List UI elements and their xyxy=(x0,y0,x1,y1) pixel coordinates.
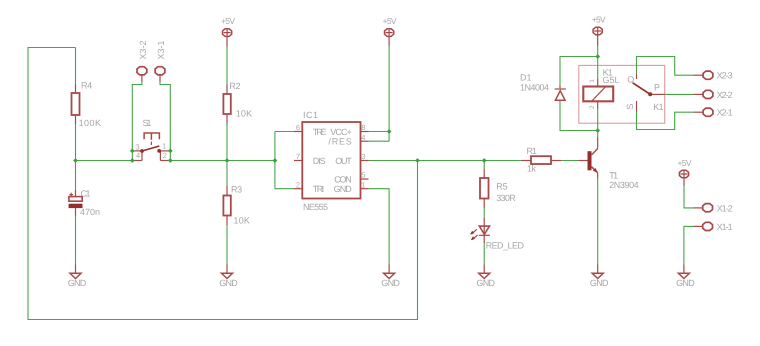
svg-text:NE555: NE555 xyxy=(303,202,328,212)
svg-text:GND: GND xyxy=(676,278,695,288)
svg-text:R3: R3 xyxy=(231,185,242,195)
svg-text:+5V: +5V xyxy=(383,16,397,26)
svg-text:2: 2 xyxy=(589,105,596,109)
svg-text:GND: GND xyxy=(476,278,495,288)
svg-text:6: 6 xyxy=(296,123,300,132)
svg-text:OUT: OUT xyxy=(335,156,352,166)
svg-text:GND: GND xyxy=(381,278,400,288)
svg-text:4: 4 xyxy=(136,151,140,160)
svg-text:X1-2: X1-2 xyxy=(717,203,733,213)
svg-text:O: O xyxy=(627,75,634,85)
svg-text:X2-2: X2-2 xyxy=(717,90,733,100)
svg-text:R5: R5 xyxy=(496,181,508,191)
svg-text:5: 5 xyxy=(361,171,365,180)
svg-text:470n: 470n xyxy=(80,207,100,217)
svg-text:GND: GND xyxy=(219,278,238,288)
svg-text:X3-2: X3-2 xyxy=(138,41,148,60)
svg-text:K1: K1 xyxy=(653,102,664,112)
svg-text:R1: R1 xyxy=(527,146,538,156)
svg-text:1: 1 xyxy=(361,180,365,189)
svg-text:4: 4 xyxy=(361,133,365,142)
svg-text:T1: T1 xyxy=(609,170,618,180)
svg-text:330R: 330R xyxy=(496,193,516,203)
svg-text:1k: 1k xyxy=(527,164,537,174)
svg-text:/RES: /RES xyxy=(328,137,351,147)
svg-text:IC1: IC1 xyxy=(303,110,318,120)
svg-text:GND: GND xyxy=(590,278,609,288)
svg-text:3: 3 xyxy=(361,152,365,161)
svg-text:100K: 100K xyxy=(79,118,101,128)
svg-text:8: 8 xyxy=(361,123,365,132)
svg-text:GND: GND xyxy=(68,278,87,288)
svg-text:G5L: G5L xyxy=(603,75,620,85)
svg-text:P: P xyxy=(654,82,660,92)
svg-text:X3-1: X3-1 xyxy=(156,41,166,60)
svg-text:CON: CON xyxy=(334,174,352,184)
svg-text:3: 3 xyxy=(135,142,139,151)
svg-text:+5V: +5V xyxy=(221,16,235,26)
svg-text:S1: S1 xyxy=(143,118,152,128)
svg-text:7: 7 xyxy=(296,152,300,161)
svg-text:1N4004: 1N4004 xyxy=(520,83,549,93)
svg-text:TRI: TRI xyxy=(313,184,325,194)
svg-text:R2: R2 xyxy=(229,81,240,91)
svg-text:2: 2 xyxy=(296,180,300,189)
svg-text:10K: 10K xyxy=(234,215,250,225)
svg-text:GND: GND xyxy=(334,184,353,194)
svg-text:X1-1: X1-1 xyxy=(717,222,733,232)
svg-text:DIS: DIS xyxy=(313,156,326,166)
svg-text:2N3904: 2N3904 xyxy=(609,180,639,190)
svg-text:RED_LED: RED_LED xyxy=(486,241,525,251)
svg-text:+5V: +5V xyxy=(678,158,692,168)
svg-text:R4: R4 xyxy=(81,81,92,91)
svg-text:X2-3: X2-3 xyxy=(717,71,733,81)
svg-text:TRE: TRE xyxy=(313,127,327,137)
svg-text:2: 2 xyxy=(163,151,167,160)
svg-text:VCC+: VCC+ xyxy=(330,127,352,137)
svg-text:1: 1 xyxy=(162,142,166,151)
svg-text:C1: C1 xyxy=(81,189,91,199)
svg-text:X2-1: X2-1 xyxy=(717,108,733,118)
svg-text:1: 1 xyxy=(589,79,596,83)
svg-text:+5V: +5V xyxy=(592,14,606,24)
svg-text:D1: D1 xyxy=(520,73,532,83)
svg-text:S: S xyxy=(625,104,635,110)
svg-text:10K: 10K xyxy=(236,108,252,118)
